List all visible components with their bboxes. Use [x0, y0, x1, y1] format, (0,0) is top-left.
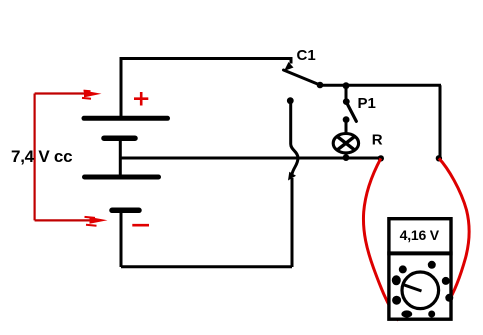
- node lamp bottom junction dot: [343, 154, 350, 161]
- annotation red arrow to negative terminal: [35, 217, 108, 226]
- switch P1 open arm: [347, 104, 356, 122]
- multimeter M1 body: [389, 219, 451, 320]
- wire right vertical drop: [439, 85, 442, 158]
- label C1: [297, 47, 316, 64]
- annotation red arrow to positive terminal: [35, 91, 102, 99]
- annotation red minus sign: [132, 224, 149, 227]
- node right probe terminal dot: [436, 155, 442, 161]
- wire battery inter-cell vertical: [119, 138, 122, 177]
- switch C1 arm contact dot: [317, 82, 324, 89]
- wire bottom rail: [121, 265, 292, 268]
- battery cell2 positive plate: [85, 175, 159, 180]
- svg-text:P1: P1: [358, 95, 376, 112]
- multimeter probe lead left (red): [363, 158, 398, 320]
- wire lamp top stub: [345, 120, 348, 134]
- battery cell1 negative plate: [104, 135, 135, 141]
- switch P1 lower contact dot: [343, 116, 350, 123]
- node left probe terminal dot: [378, 155, 384, 161]
- wire middle rail from battery center tap to probe node: [120, 157, 381, 160]
- multimeter display divider: [387, 251, 452, 255]
- switch P1 pivot dot: [343, 98, 350, 105]
- battery cell2 negative plate: [112, 208, 139, 214]
- svg-text:7,4 V cc: 7,4 V cc: [11, 147, 72, 166]
- wire battery top vertical: [120, 57, 123, 118]
- multimeter rotary dial: [402, 272, 439, 309]
- lamp R cross X: [337, 137, 354, 150]
- wire return vertical to C1 lower contact: [291, 178, 294, 267]
- wire top-right rail: [320, 84, 441, 87]
- label P1: [358, 95, 376, 112]
- switch C1 fixed end arrow (wire end bending down with arrowhead): [284, 57, 294, 71]
- wire crossover hop with arrowhead over middle rail: [288, 101, 298, 181]
- annotation red bracket vertical line: [33, 94, 35, 221]
- wire lamp bottom stub: [345, 153, 348, 159]
- multimeter dial pointer: [404, 285, 422, 291]
- wire top rail from battery + to switch C1: [121, 57, 291, 60]
- switch P1 upper wire stub: [345, 86, 348, 101]
- multimeter display reading 4,16 V: [400, 227, 440, 243]
- svg-text:4,16 V: 4,16 V: [400, 227, 440, 243]
- label R: [372, 131, 383, 148]
- battery cell1 positive plate: [84, 116, 168, 121]
- label 7,4 V cc: [11, 147, 72, 166]
- wire battery bottom vertical: [120, 211, 123, 267]
- lamp R bulb circle: [333, 134, 358, 153]
- svg-text:C1: C1: [297, 47, 316, 64]
- annotation red plus sign: [134, 92, 148, 106]
- svg-text:R: R: [372, 131, 383, 148]
- multimeter dial position dots: [392, 261, 454, 318]
- node C1 lower contact dot: [287, 97, 294, 104]
- switch C1 arm: [284, 70, 321, 85]
- node junction dot at P1 branch: [343, 82, 350, 89]
- multimeter probe lead right (red): [439, 158, 469, 314]
